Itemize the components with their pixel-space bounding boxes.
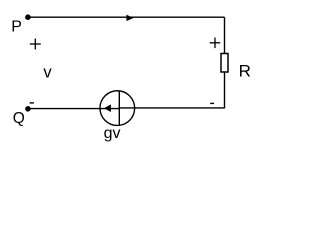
svg-text:P: P bbox=[11, 19, 22, 36]
svg-text:gv: gv bbox=[104, 125, 121, 142]
svg-text:Q: Q bbox=[13, 110, 25, 127]
svg-text:v: v bbox=[43, 64, 52, 82]
svg-text:R: R bbox=[239, 62, 251, 81]
